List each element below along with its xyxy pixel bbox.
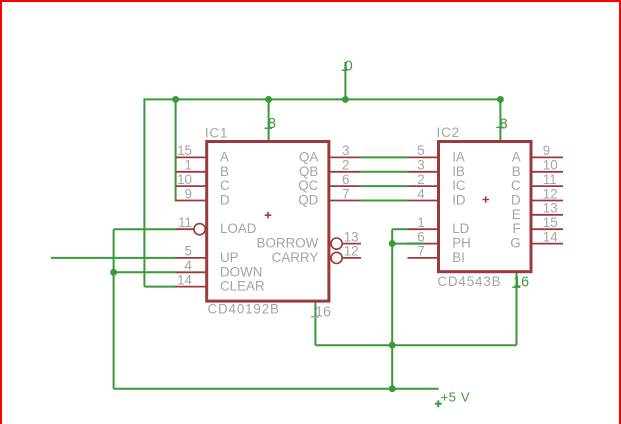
wire vertical input chain A-D: [175, 98, 177, 201]
svg-text:13: 13: [344, 229, 359, 244]
wire DOWN net horizontal: [114, 271, 177, 273]
svg-text:CLEAR: CLEAR: [220, 279, 265, 294]
wire UP net horizontal: [51, 257, 176, 259]
wire LD net horizontal: [392, 228, 407, 230]
wire left vertical from top rail down to CLEAR: [143, 98, 145, 286]
IC1 pin 7 QD: [330, 200, 360, 202]
svg-text:12: 12: [543, 186, 558, 201]
svg-text:9: 9: [543, 143, 550, 158]
svg-text:C: C: [220, 178, 230, 193]
svg-text:UP: UP: [220, 250, 239, 265]
wire vertical LD/PH to bottom rail: [391, 229, 393, 389]
svg-text:D: D: [511, 193, 521, 208]
wire LOAD net horizontal: [114, 228, 177, 230]
IC IC2 CD4543B box: [439, 142, 532, 272]
IC2 pin 9 A: [531, 156, 563, 158]
svg-text:A: A: [512, 149, 521, 164]
svg-text:7: 7: [342, 186, 349, 201]
IC2 pin 3 IB: [408, 171, 438, 173]
svg-text:1: 1: [417, 215, 424, 230]
IC1 pin 9 D: [176, 200, 206, 202]
svg-text:9: 9: [185, 186, 192, 201]
svg-text:13: 13: [543, 201, 558, 216]
svg-text:IA: IA: [452, 149, 465, 164]
IC2 pin 7 BI: [408, 257, 438, 259]
svg-text:5: 5: [185, 244, 192, 259]
svg-text:QD: QD: [298, 193, 318, 208]
svg-text:15: 15: [177, 143, 192, 158]
svg-text:A: A: [220, 149, 229, 164]
svg-text:LD: LD: [452, 221, 469, 236]
IC2 plus mark: [482, 196, 489, 203]
svg-text:8: 8: [268, 116, 276, 132]
IC2 pin 1 LD: [408, 228, 438, 230]
svg-text:10: 10: [177, 172, 192, 187]
svg-text:B: B: [512, 164, 521, 179]
svg-text:2: 2: [342, 158, 349, 173]
node IC2 pin8 tap junction: [497, 96, 504, 103]
IC1 pin 10 C: [176, 185, 206, 187]
wire IC1 pin16 stub: [314, 303, 316, 346]
svg-text:3: 3: [342, 143, 349, 158]
IC1 pin 8 power label: [265, 127, 272, 129]
svg-text:QC: QC: [298, 178, 318, 193]
wire QC net: [360, 185, 407, 187]
svg-text:PH: PH: [452, 236, 471, 251]
IC1 pin 1 B: [176, 171, 206, 173]
node DOWN tap junction: [110, 269, 117, 276]
IC2 pin 15 F: [531, 228, 563, 230]
svg-text:3: 3: [417, 158, 424, 173]
wire PH net horizontal: [392, 243, 423, 245]
svg-text:15: 15: [543, 215, 558, 230]
svg-text:16: 16: [513, 275, 529, 291]
svg-text:B: B: [220, 164, 229, 179]
IC2 pin 11 C: [531, 185, 563, 187]
svg-text:D: D: [220, 193, 230, 208]
wire QB net: [360, 171, 407, 173]
svg-text:4: 4: [185, 258, 193, 273]
wire top horizontal supply-0 rail: [144, 98, 500, 100]
IC1 pin 6 QC: [330, 185, 360, 187]
IC1 pin 2 QB: [330, 171, 360, 173]
wire QD net: [360, 200, 407, 202]
svg-text:QB: QB: [299, 164, 318, 179]
IC1 pin 12 CARRY (inverted): [331, 252, 342, 263]
IC1 plus mark: [265, 212, 272, 219]
IC1 pin 15 A: [176, 156, 206, 158]
wire IC1 pin8 stub: [268, 99, 270, 140]
svg-text:CARRY: CARRY: [272, 250, 319, 265]
svg-text:12: 12: [344, 244, 359, 259]
svg-text:1: 1: [185, 158, 192, 173]
IC1 pin 16 power label: [311, 316, 319, 318]
svg-text:2: 2: [417, 172, 424, 187]
svg-text:E: E: [512, 207, 521, 222]
wire IC2 pin16 stub: [516, 273, 518, 345]
svg-text:DOWN: DOWN: [220, 264, 262, 279]
IC IC1 CD40192B box: [207, 142, 329, 302]
svg-text:LOAD: LOAD: [220, 221, 257, 236]
node pin16 rail tap junction: [389, 342, 396, 349]
wire pin16 rail horizontal: [315, 344, 516, 346]
svg-text:IC: IC: [452, 178, 466, 193]
IC2 pin 4 ID: [408, 200, 438, 202]
IC1 pin 5 UP: [176, 257, 206, 259]
svg-text:IC2: IC2: [437, 125, 460, 140]
svg-text:8: 8: [500, 116, 508, 132]
wire IC2 pin8 stub: [499, 98, 501, 140]
wire QA net: [360, 156, 407, 158]
IC2 pin 5 IA: [408, 156, 438, 158]
svg-text:6: 6: [342, 172, 349, 187]
svg-text:CD40192B: CD40192B: [208, 302, 280, 317]
IC1 pin 11 LOAD (inverted): [176, 228, 195, 230]
IC2 pin 2 IC: [408, 185, 438, 187]
svg-text:11: 11: [178, 215, 192, 230]
node PH tap junction: [389, 240, 396, 247]
svg-text:4: 4: [417, 186, 425, 201]
IC2 pin 14 G: [531, 243, 563, 245]
IC2 pin 10 B: [531, 171, 563, 173]
wire PH net overlap: [408, 243, 424, 245]
svg-text:G: G: [510, 236, 520, 251]
svg-text:CD4543B: CD4543B: [437, 274, 501, 289]
svg-text:10: 10: [543, 158, 558, 173]
svg-text:BI: BI: [452, 250, 465, 265]
IC1 pin 4 DOWN: [176, 271, 206, 273]
IC2 pin 8 power label: [496, 126, 503, 128]
IC2 pin 13 E: [531, 214, 563, 216]
svg-text:5: 5: [417, 143, 424, 158]
svg-text:IB: IB: [452, 164, 465, 179]
svg-text:11: 11: [543, 172, 557, 187]
svg-text:6: 6: [417, 229, 424, 244]
svg-text:ID: ID: [452, 193, 466, 208]
wire bottom +5V rail: [114, 388, 439, 390]
IC2 pin 16 power label: [512, 286, 520, 288]
svg-text:C: C: [511, 178, 521, 193]
svg-text:IC1: IC1: [205, 125, 228, 140]
svg-text:QA: QA: [299, 149, 318, 164]
IC2 pin 12 D: [531, 200, 563, 202]
wire left vertical LOAD to bottom rail: [113, 229, 115, 389]
IC1 pin 13 BORROW (inverted): [331, 238, 342, 249]
svg-text:+5 V: +5 V: [441, 389, 471, 404]
IC1 pin 14 CLEAR: [176, 286, 206, 288]
svg-text:14: 14: [177, 272, 192, 287]
IC2 pin 6 PH: [408, 243, 438, 245]
node +5V rail tap junction: [389, 385, 396, 392]
supply +5V symbol: [435, 400, 442, 407]
svg-text:BORROW: BORROW: [257, 236, 319, 251]
node supply-0 tap junction: [342, 96, 349, 103]
svg-text:F: F: [513, 221, 521, 236]
wire net 0 stub above rail: [344, 62, 346, 99]
svg-text:16: 16: [315, 305, 331, 321]
svg-text:7: 7: [417, 244, 424, 259]
IC1 pin 3 QA: [330, 156, 360, 158]
supply net 0 label: [342, 69, 347, 71]
node IC1 pin8 tap junction: [265, 96, 272, 103]
svg-text:0: 0: [345, 59, 353, 75]
svg-text:14: 14: [543, 229, 558, 244]
node input-chain top junction: [172, 96, 179, 103]
wire CLEAR net horizontal: [144, 286, 176, 288]
